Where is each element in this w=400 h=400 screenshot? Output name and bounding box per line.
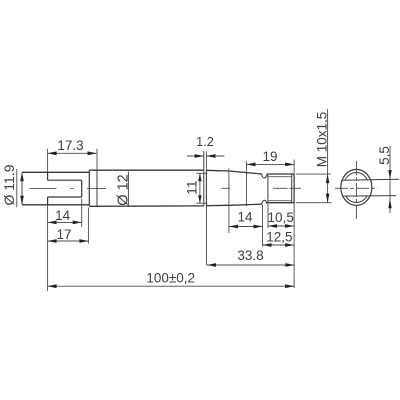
main shaft d12 outline (89, 170, 204, 206)
groove 1.2 wide (204, 151, 207, 265)
chamfer line main shaft left end (96, 149, 98, 207)
dimension 14 right (taper length) (229, 169, 263, 247)
taper cone (206, 170, 262, 205)
end face line + long extension (293, 160, 295, 289)
svg-text:17: 17 (56, 227, 71, 242)
svg-text:Ø 12: Ø 12 (115, 174, 131, 205)
thread start line (267, 174, 269, 203)
end view inner circle arcs (345, 173, 368, 181)
shoulder step (88, 170, 90, 206)
dimension M10x1.5 (296, 109, 332, 203)
svg-text:10,5: 10,5 (268, 210, 294, 225)
svg-text:1.2: 1.2 (196, 135, 214, 149)
slot 5.5 side view (48, 172, 82, 205)
svg-text:5,5: 5,5 (377, 146, 392, 165)
dimension 19 (247, 161, 295, 206)
dimension 1.2 (187, 155, 224, 157)
svg-text:14: 14 (237, 210, 253, 225)
dimension 33.8 (207, 264, 294, 266)
dimension 12,5 (263, 244, 295, 246)
svg-text:14: 14 (55, 208, 71, 223)
svg-text:33.8: 33.8 (237, 248, 263, 263)
end view slot lines + extensions to 5,5 dim (342, 179, 399, 180)
end view centre lines (335, 161, 377, 220)
end view outer circle (341, 169, 372, 205)
dimension 14 left (48, 199, 82, 228)
shaft left cylinder outline (22, 172, 89, 205)
dimension 10,5 (268, 204, 294, 228)
slot centre line (30, 187, 107, 189)
svg-text:19: 19 (262, 149, 277, 164)
thread minor diameter lines (268, 177, 292, 201)
shaft centre line dashes (222, 187, 302, 189)
svg-text:12,5: 12,5 (266, 229, 292, 244)
svg-text:Ø 11.9: Ø 11.9 (1, 164, 17, 205)
thread M10 outline (267, 174, 294, 203)
thread relief notch top (262, 174, 267, 178)
dimension d12 (inside shaft) (127, 172, 129, 206)
dimension 5,5 (end view slot) (389, 146, 391, 213)
svg-text:11: 11 (183, 180, 199, 195)
dimension 11 (groove bottom) (197, 173, 208, 203)
thread end chamfer (291, 174, 293, 203)
thread relief notch bottom (262, 200, 267, 204)
dimension 17 (48, 208, 89, 244)
dimension 100+-0,2 (48, 285, 295, 287)
svg-text:17.3: 17.3 (57, 138, 83, 153)
svg-text:M 10x1,5: M 10x1,5 (314, 112, 329, 168)
extension line left (slot edge, shared by 14/17/100 dims) (47, 205, 49, 291)
dimension 17.3 (48, 149, 97, 172)
dimension d11.9 (17, 169, 22, 207)
svg-text:100±0,2: 100±0,2 (146, 270, 195, 285)
